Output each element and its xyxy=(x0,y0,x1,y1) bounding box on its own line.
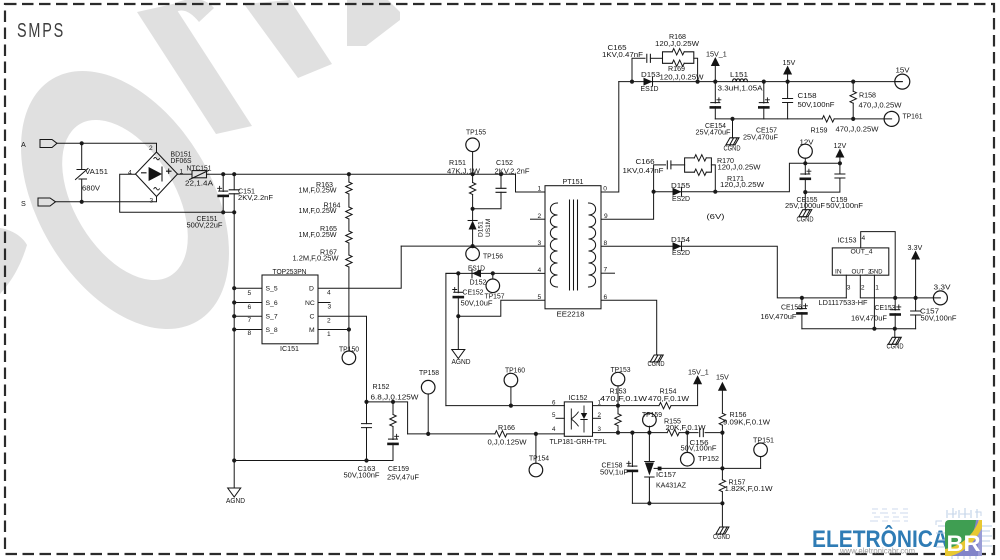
svg-text:S_8: S_8 xyxy=(266,327,278,334)
wire C157 bottom xyxy=(915,315,917,329)
testpoint TP152 xyxy=(681,452,695,466)
logo ELETRONICA BR xyxy=(812,508,992,559)
junction TP160 xyxy=(509,404,513,408)
wire to pt pin5 xyxy=(458,300,545,316)
svg-text:C158: C158 xyxy=(798,91,817,100)
capacitor CE151 xyxy=(219,190,228,192)
svg-text:3.3uH,1.05A: 3.3uH,1.05A xyxy=(718,83,763,92)
svg-text:CE156: CE156 xyxy=(781,302,802,311)
svg-text:ES1D: ES1D xyxy=(468,263,485,272)
thermistor NTC151 xyxy=(192,171,207,178)
svg-text:2KV,2.2nF: 2KV,2.2nF xyxy=(238,193,274,202)
junction 12V circle xyxy=(803,161,807,165)
junction A/VA151 xyxy=(80,141,84,145)
svg-text:TOP253PN: TOP253PN xyxy=(273,267,307,276)
15V return bus xyxy=(715,118,822,120)
svg-text:16V,470uF: 16V,470uF xyxy=(851,313,888,322)
6V diode line xyxy=(601,246,846,298)
resistor R154 xyxy=(659,402,671,408)
ic IC153 box xyxy=(832,248,889,275)
junction L151 CE157 xyxy=(762,80,766,84)
wire C159 bottom xyxy=(805,178,840,192)
junction CE152 gnd xyxy=(456,314,460,318)
power arrow 12V xyxy=(835,149,844,158)
svg-text:0,J,0.125W: 0,J,0.125W xyxy=(488,437,527,446)
junction pair rail xyxy=(696,80,700,84)
wire chain seg1 xyxy=(348,174,350,182)
junction 15V C158 xyxy=(786,80,790,84)
capacitor CE154 xyxy=(711,102,720,104)
svg-text:BR: BR xyxy=(947,531,981,556)
svg-text:IC157: IC157 xyxy=(656,470,676,479)
svg-text:3: 3 xyxy=(847,285,851,292)
resistor R156 xyxy=(719,413,725,425)
svg-text:CE153: CE153 xyxy=(875,303,896,312)
svg-text:TP156: TP156 xyxy=(483,251,503,260)
junction agnd corner xyxy=(232,458,236,462)
junction bus Rchain xyxy=(347,172,351,176)
svg-text:4: 4 xyxy=(862,235,866,242)
wire chain seg2 xyxy=(348,194,350,207)
svg-text:5: 5 xyxy=(248,290,252,297)
svg-text:50V,1uF: 50V,1uF xyxy=(600,467,629,476)
wire M pin xyxy=(318,329,349,331)
testpoint TP155 xyxy=(466,138,480,152)
svg-text:25V,47uF: 25V,47uF xyxy=(387,473,420,482)
wire S to bridge bottom xyxy=(56,197,157,202)
svg-text:TP152: TP152 xyxy=(698,454,719,463)
wire D152 to opto net xyxy=(446,273,458,405)
wire pin10 riser xyxy=(601,82,619,192)
wire bridge to NTC xyxy=(178,173,193,175)
stub NC pin xyxy=(318,302,330,304)
capacitor CE155 xyxy=(801,173,810,175)
capacitor C156 xyxy=(700,429,704,437)
bridge ac tildes xyxy=(154,157,160,190)
wire CE154 top xyxy=(714,82,716,103)
svg-text:50V,100nF: 50V,100nF xyxy=(826,201,864,210)
stub into 15V circle xyxy=(895,81,902,83)
junction R153 bottom xyxy=(616,431,620,435)
svg-text:LD1117533-HF: LD1117533-HF xyxy=(819,298,869,307)
circle 3.3V output xyxy=(933,291,947,305)
svg-text:3: 3 xyxy=(328,304,332,311)
resistor R164 xyxy=(346,207,352,219)
svg-text:AGND: AGND xyxy=(226,496,245,505)
wire R152 top seg xyxy=(392,402,394,415)
wire C166 branch xyxy=(654,165,666,192)
svg-text:680V: 680V xyxy=(82,184,100,193)
drain net to transformer pin3 xyxy=(401,245,545,247)
svg-text:IC153: IC153 xyxy=(838,235,857,244)
junction R157 gnd xyxy=(720,501,724,505)
junction S_5 xyxy=(232,286,236,290)
capacitor C158 xyxy=(783,99,793,103)
wire pin6 to gnd xyxy=(601,300,657,355)
junction C156 left xyxy=(685,431,689,435)
wire CE158 top xyxy=(631,433,633,467)
svg-text:1: 1 xyxy=(538,186,542,193)
testpoint TP156 xyxy=(466,247,480,261)
power arrow 15V_1 xyxy=(711,57,720,66)
junction return C151 xyxy=(232,210,236,214)
junction CE152 top xyxy=(456,271,460,275)
stub pt pin 2 xyxy=(531,218,546,220)
svg-text:ES1D: ES1D xyxy=(641,84,659,93)
circle 15V output xyxy=(895,74,910,89)
bridge rectifier BD151 diamond xyxy=(136,152,178,197)
stem 12V arrow xyxy=(839,158,841,164)
capacitor C166 xyxy=(667,161,671,169)
stem 3.3V arrow xyxy=(915,260,917,298)
capacitor CE153 xyxy=(891,309,900,311)
wire C pin xyxy=(318,316,367,402)
svg-text:120,J,0.25W: 120,J,0.25W xyxy=(655,39,699,48)
svg-text:R152: R152 xyxy=(373,382,390,391)
wire C152 top xyxy=(500,174,502,188)
stub ic153 pin1 gnd xyxy=(873,275,875,329)
svg-text:NC: NC xyxy=(305,300,315,307)
testpoint TP158 xyxy=(421,380,435,394)
wire R155 to C156 xyxy=(679,432,698,434)
svg-text:9.09K,F,0.1W: 9.09K,F,0.1W xyxy=(723,417,770,426)
svg-text:2: 2 xyxy=(149,145,153,152)
capacitor C157 xyxy=(911,311,921,315)
svg-text:CGND: CGND xyxy=(648,359,665,368)
transformer primary winding xyxy=(550,203,557,287)
junction C166 tap xyxy=(652,190,656,194)
opto collector line xyxy=(593,405,660,407)
svg-text:1: 1 xyxy=(327,331,331,338)
svg-text:SMPS: SMPS xyxy=(17,20,65,42)
capacitor C165 xyxy=(647,54,651,62)
shunt regulator IC157 KA431 xyxy=(645,433,654,504)
junction out CE153 xyxy=(893,296,897,300)
junction KA431 top xyxy=(647,431,651,435)
stem TP155 xyxy=(472,152,474,175)
wire CE158 bottom xyxy=(631,470,633,503)
parallel pair R170 R171 frame xyxy=(685,158,712,172)
svg-text:4: 4 xyxy=(128,170,132,177)
varistor VA151 xyxy=(76,169,89,180)
wire opto led supply xyxy=(446,405,564,407)
wire VA151 upper xyxy=(81,143,83,169)
wire pin9 riser xyxy=(601,192,654,220)
control jumper xyxy=(367,402,408,434)
svg-text:50V,100nF: 50V,100nF xyxy=(344,471,381,480)
svg-text:2: 2 xyxy=(327,317,331,324)
wire R158 bottom xyxy=(852,103,854,119)
power arrow 15V fb xyxy=(718,382,727,391)
connector S xyxy=(38,198,56,206)
svg-text:50V,100nF: 50V,100nF xyxy=(681,443,718,452)
wire CE154 bottom xyxy=(714,107,716,119)
svg-text:IC152: IC152 xyxy=(569,393,588,402)
svg-text:50V,100nF: 50V,100nF xyxy=(921,314,958,323)
wire CE156 bottom xyxy=(801,313,803,329)
junction S/VA151 xyxy=(80,200,84,204)
svg-text:S_6: S_6 xyxy=(266,300,278,307)
resistor R170 xyxy=(694,155,706,161)
wire R159 to TP161 xyxy=(834,118,891,120)
junction CE155 gnd xyxy=(803,190,807,194)
ground CGND top xyxy=(726,138,739,145)
ground CGND 12V xyxy=(799,210,812,217)
junction M pin chain xyxy=(347,327,351,331)
testpoint TP154 xyxy=(529,463,543,477)
junction TP157 xyxy=(491,271,495,275)
main HV bus xyxy=(207,173,473,175)
svg-text:6: 6 xyxy=(248,304,252,311)
stem TP154 xyxy=(535,434,537,463)
diode D152 xyxy=(472,269,481,278)
svg-text:EE2218: EE2218 xyxy=(557,310,585,319)
wire C156 right xyxy=(705,432,722,434)
15V rail xyxy=(619,81,903,83)
stem TP158 xyxy=(427,394,429,434)
svg-text:VA151: VA151 xyxy=(85,167,108,176)
resistor R159 xyxy=(822,116,834,122)
junction CE158 top xyxy=(630,431,634,435)
junction D155 Rpair xyxy=(713,190,717,194)
svg-text:7: 7 xyxy=(604,267,608,274)
junction S_6 xyxy=(232,300,236,304)
svg-text:1.2M,F,0.25W: 1.2M,F,0.25W xyxy=(293,254,339,263)
wire CE156 top xyxy=(801,298,803,309)
svg-text:50V,10uF: 50V,10uF xyxy=(461,298,494,307)
svg-text:AGND: AGND xyxy=(452,357,471,366)
svg-text:US1M: US1M xyxy=(485,219,492,237)
wire C151 bottom xyxy=(233,194,235,213)
svg-text:3.3V: 3.3V xyxy=(934,282,951,291)
wire chain seg4 xyxy=(348,243,350,255)
svg-text:C166: C166 xyxy=(636,157,655,166)
resistor R155 xyxy=(667,429,679,435)
svg-text:5: 5 xyxy=(552,412,556,419)
wire C165 to pair xyxy=(650,57,662,59)
wire R151 top xyxy=(472,174,474,182)
svg-text:12V: 12V xyxy=(800,137,814,146)
wire C163 top xyxy=(366,402,368,424)
stem CGND 12V xyxy=(804,192,806,210)
junction 12V arrow xyxy=(838,161,842,165)
transformer PT151 box xyxy=(545,186,601,309)
resistor R169 xyxy=(672,60,684,66)
svg-text:1M,F,0.25W: 1M,F,0.25W xyxy=(299,206,337,215)
capacitor C163 xyxy=(362,424,372,428)
resistor R153 xyxy=(615,414,621,426)
svg-text:R159: R159 xyxy=(811,125,828,134)
decorative watermark xyxy=(0,0,400,366)
junction CE156 top xyxy=(800,296,804,300)
svg-text:IN: IN xyxy=(835,269,842,276)
ic U IC151 box xyxy=(262,275,318,344)
svg-text:470,J,0.25W: 470,J,0.25W xyxy=(836,124,879,133)
resistor R158 xyxy=(850,91,856,103)
ground AGND upper xyxy=(452,350,465,359)
svg-text:4: 4 xyxy=(538,267,542,274)
stem CGND 3.3V xyxy=(894,329,896,338)
stem CGND fb xyxy=(721,503,723,527)
stub pt pin 7 xyxy=(601,272,615,274)
svg-text:500V,22uF: 500V,22uF xyxy=(187,221,224,230)
wire R153 top seg xyxy=(617,406,619,414)
stub pin S_5 xyxy=(234,287,262,289)
capacitor C151 xyxy=(229,190,239,194)
wire D151 cathode xyxy=(472,209,474,221)
wire VA151 lower xyxy=(81,179,83,202)
svg-text:6: 6 xyxy=(552,399,556,406)
wire R157 bottom xyxy=(721,492,723,504)
svg-text:15V: 15V xyxy=(783,58,796,67)
svg-text:3.3V: 3.3V xyxy=(908,243,923,252)
stub pin S_7 xyxy=(234,315,262,317)
svg-text:2: 2 xyxy=(861,285,865,292)
svg-text:6.8,J,0.125W: 6.8,J,0.125W xyxy=(371,392,419,401)
wire chain seg3 xyxy=(348,219,350,231)
svg-text:15V: 15V xyxy=(716,372,729,381)
junction ref divider xyxy=(720,466,724,470)
wire CE151 top xyxy=(222,174,224,191)
testpoint TP150 xyxy=(342,351,356,365)
svg-text:L151: L151 xyxy=(730,70,748,79)
svg-text:16V,470uF: 16V,470uF xyxy=(761,312,798,321)
stub opto pin2 xyxy=(593,417,601,419)
bridge internal diode xyxy=(149,167,162,181)
svg-text:TP151: TP151 xyxy=(753,435,774,444)
stem AGND upper xyxy=(457,316,459,349)
wire 15V to R156 xyxy=(721,391,723,414)
wire C166 to pair xyxy=(671,164,685,166)
testpoint TP159 xyxy=(643,413,657,427)
diode D154 xyxy=(673,242,682,251)
junction R151 C152 xyxy=(471,207,475,211)
junction out C157 xyxy=(914,296,918,300)
ground CGND pin6 xyxy=(650,355,663,362)
junction bus C152 xyxy=(499,172,503,176)
svg-text:25V,470uF: 25V,470uF xyxy=(743,132,779,141)
resistor R152 xyxy=(390,415,396,427)
wire chain to M pin xyxy=(348,267,350,351)
junction TP156 xyxy=(471,244,475,248)
svg-text:D152: D152 xyxy=(470,278,487,287)
wire CE159 bottom xyxy=(392,443,394,460)
junction C165 left xyxy=(630,80,634,84)
svg-text:1KV,0.47nF: 1KV,0.47nF xyxy=(623,166,665,175)
wire R166 to opto xyxy=(507,433,564,435)
wire C159 top xyxy=(839,163,841,174)
diode D151 xyxy=(468,221,477,230)
testpoint TP160 xyxy=(504,373,518,387)
svg-text:TP161: TP161 xyxy=(903,111,923,120)
junction KA431 gnd xyxy=(647,501,651,505)
svg-text:470,F,0.1W: 470,F,0.1W xyxy=(600,394,647,403)
svg-text:OUT_4: OUT_4 xyxy=(851,249,873,256)
diode D153 xyxy=(644,77,653,86)
junction R156 bottom xyxy=(720,431,724,435)
wire CE153 top xyxy=(894,298,896,310)
svg-text:S_7: S_7 xyxy=(266,314,278,321)
svg-text:www.eletronicabr.com: www.eletronicabr.com xyxy=(839,547,915,556)
svg-text:TP155: TP155 xyxy=(466,127,486,136)
feedback ground bus xyxy=(632,502,722,504)
3.3V ground bus xyxy=(802,328,916,330)
connector A xyxy=(40,140,57,148)
svg-text:TP158: TP158 xyxy=(419,368,439,377)
junction bus C151 xyxy=(232,172,236,176)
feedback line lower xyxy=(408,433,495,435)
wire ic153 pin4 loop xyxy=(861,232,896,298)
ground CGND fb xyxy=(716,527,729,534)
svg-text:TLP181-GRH-TPL: TLP181-GRH-TPL xyxy=(550,437,607,446)
svg-text:A: A xyxy=(21,140,26,149)
wire bus to C152 xyxy=(473,174,545,192)
stem TP157 xyxy=(492,273,494,279)
resistor R166 xyxy=(495,431,507,437)
wire CE152 top xyxy=(457,273,459,292)
svg-text:25V,470uF: 25V,470uF xyxy=(696,127,732,136)
svg-text:C: C xyxy=(310,314,315,321)
svg-text:PT151: PT151 xyxy=(563,177,584,186)
svg-text:TP160: TP160 xyxy=(505,365,525,374)
svg-text:KA431AZ: KA431AZ xyxy=(656,480,687,489)
wire C158 bottom xyxy=(787,103,789,119)
ground AGND lower xyxy=(228,488,241,497)
stem CGND top xyxy=(732,119,734,138)
svg-text:D154: D154 xyxy=(671,235,690,244)
wire CE157 bottom xyxy=(763,107,765,119)
analog ground bus xyxy=(234,460,393,462)
wire CE157 top xyxy=(763,82,765,103)
stub pin S_6 xyxy=(234,302,262,304)
stub pin S_8 xyxy=(234,329,262,331)
power arrow 15V xyxy=(783,66,792,75)
transformer core xyxy=(570,200,578,290)
capacitor CE157 xyxy=(759,102,768,104)
bridge return loop xyxy=(120,174,235,212)
svg-text:1KV,0.47nF: 1KV,0.47nF xyxy=(602,50,644,59)
ref line xyxy=(662,467,761,469)
wire CE155 top xyxy=(804,163,806,174)
stub opto pin5 xyxy=(556,417,564,419)
stem TP153 xyxy=(617,386,619,406)
wire R151 bottom xyxy=(472,195,474,209)
svg-text:CGND: CGND xyxy=(797,215,814,224)
wire C151 top xyxy=(233,174,235,190)
svg-text:15V: 15V xyxy=(896,66,910,75)
svg-text:TP150: TP150 xyxy=(339,344,359,353)
resistor R168 xyxy=(672,49,684,55)
svg-text:M: M xyxy=(309,327,315,334)
wire R156 to ref xyxy=(721,433,723,469)
testpoint TP151 xyxy=(754,443,768,457)
wire pair to rail xyxy=(694,58,698,81)
svg-text:ES2D: ES2D xyxy=(672,194,690,203)
wire CE155 bottom xyxy=(804,178,806,192)
capacitor CE158 xyxy=(628,465,637,467)
svg-text:S: S xyxy=(21,199,26,208)
junction return CE151 xyxy=(221,210,225,214)
wire R158 top xyxy=(852,82,854,92)
junction bus CE151 xyxy=(221,172,225,176)
diode D155 xyxy=(673,187,682,196)
svg-text:1M,F,0.25W: 1M,F,0.25W xyxy=(299,186,337,195)
svg-text:IC151: IC151 xyxy=(280,344,299,353)
stem 15V_1 arrow xyxy=(714,66,716,82)
svg-text:15V_1: 15V_1 xyxy=(706,50,727,59)
junction S_7 xyxy=(232,314,236,318)
svg-text:1: 1 xyxy=(875,285,879,292)
